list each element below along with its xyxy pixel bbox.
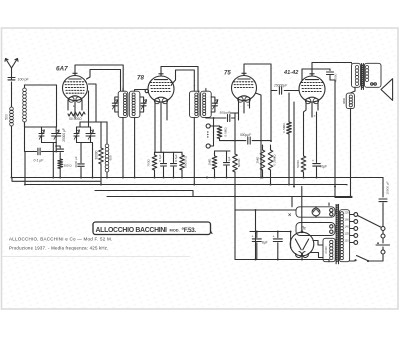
resistor R 300	[58, 159, 63, 169]
capacitor C 8uF a	[256, 232, 258, 238]
resistor R 30000	[100, 146, 102, 148]
trimmer capacitor IFT1a	[114, 99, 116, 110]
svg-text:+: +	[312, 159, 314, 163]
wire power mid vertical	[255, 210, 257, 260]
wire output primary bottom	[351, 87, 356, 93]
svg-text:220: 220	[345, 211, 350, 215]
pin 75 p3	[249, 99, 251, 108]
IF transformer 2 secondary box	[201, 91, 212, 117]
svg-text:0·1µF: 0·1µF	[158, 154, 162, 162]
variable capacitor CV2	[90, 127, 92, 143]
wire antenna drop	[11, 82, 13, 107]
svg-text:10000 µF: 10000 µF	[386, 181, 390, 194]
variable capacitor CV1	[55, 127, 57, 143]
capacitor C 500pF coupling	[220, 140, 246, 142]
resistor R 0.5M phono	[219, 125, 221, 128]
svg-text:25000 µF: 25000 µF	[62, 128, 66, 142]
wire gang1 bus drop	[52, 143, 54, 178]
wire L1 to ground bus	[11, 126, 13, 178]
speaker LS cone	[381, 79, 393, 101]
capacitor C 0.1uF under 78	[163, 152, 165, 162]
coil output primary	[355, 66, 358, 69]
svg-text:2MΩ: 2MΩ	[256, 156, 260, 163]
capacitor C 500pF ift	[206, 117, 226, 119]
wire T1	[210, 125, 219, 127]
svg-text:50 000Ω: 50 000Ω	[69, 117, 82, 121]
coil field	[349, 95, 352, 98]
wire electrolytic rail	[250, 231, 291, 233]
pin 41-42 p3	[317, 101, 319, 110]
coil L1 antenna primary	[10, 107, 14, 111]
coil IFT1 primary	[123, 93, 126, 96]
grid pin circle 78	[145, 89, 148, 92]
svg-text:50000: 50000	[237, 158, 241, 167]
wire 6A7 anode	[87, 70, 121, 92]
resistor R 2M	[262, 145, 264, 150]
wire 78 top cap	[161, 67, 199, 92]
svg-text:700Ω: 700Ω	[147, 159, 151, 167]
wire transformer bottom link	[350, 260, 355, 262]
resistor R 1M	[214, 151, 216, 156]
capacitor C 10000pF mains	[379, 199, 387, 202]
wire 75 plate right	[256, 93, 262, 178]
primary winding	[340, 212, 343, 215]
IF transformer 1 secondary box	[129, 91, 140, 117]
terminal dots	[207, 131, 208, 132]
wire 6A7 osc feed	[89, 84, 97, 122]
output transformer primary box	[352, 63, 361, 87]
wire L2 top to 6A7 grid	[25, 85, 57, 88]
pin 78 p2	[160, 102, 162, 152]
pin 75 p2	[230, 100, 244, 113]
svg-text:ALLOCCHIO BACCHINI: ALLOCCHIO BACCHINI	[96, 227, 168, 234]
wire IFT1 primary drop	[122, 117, 124, 177]
pin 41-42 p1	[304, 101, 307, 112]
capacitor C 25000pF coupling	[271, 90, 277, 92]
lower terminal	[381, 250, 385, 254]
resistor R 500 cathode	[301, 156, 306, 172]
dial lamp box	[296, 207, 335, 217]
wire rectifier right pin 2	[310, 253, 323, 258]
wire screen drop	[293, 102, 295, 187]
wire IFT1b ties	[140, 97, 144, 112]
pilot lamp	[312, 208, 320, 216]
capacitor C 0.1uF	[38, 148, 40, 155]
svg-text:25000µF: 25000µF	[273, 84, 288, 88]
wire IFT2 primary drop	[193, 117, 195, 184]
wire AVC line	[25, 151, 37, 153]
svg-text:160: 160	[345, 218, 350, 222]
wire tone drop	[330, 80, 352, 198]
svg-text:2×300: 2×300	[324, 246, 328, 254]
wire 6A7 grid drop	[56, 85, 58, 127]
output transformer secondary box	[364, 63, 381, 87]
svg-text:41-42: 41-42	[283, 70, 299, 76]
wire transformer top	[328, 203, 330, 205]
svg-text:0·5µF: 0·5µF	[174, 154, 178, 162]
bus 4	[107, 196, 352, 198]
wire IFT1 secondary drop	[134, 117, 136, 177]
wire switch drop	[369, 254, 383, 261]
resistor R 0.25M	[270, 145, 272, 150]
tube U2 78	[148, 76, 174, 102]
trimmer capacitor IFT1b	[143, 99, 145, 110]
trimmer capacitor IFT2	[214, 99, 216, 110]
coil IFT2 secondary	[203, 93, 206, 96]
title box	[93, 222, 211, 235]
wire gang1 grid extension	[55, 143, 57, 152]
capacitor C antenna 100pF	[8, 78, 15, 80]
wire IFT1a ties	[115, 97, 118, 112]
tap 220	[350, 214, 354, 216]
svg-text:×: ×	[247, 104, 249, 108]
svg-text:500Ω: 500Ω	[296, 160, 300, 168]
capacitor C 0.5uF under 78	[173, 152, 175, 162]
voice coil terminals	[371, 83, 373, 85]
wire bottom rail	[235, 260, 329, 262]
core output transformer	[361, 64, 363, 90]
coil IFT1 secondary	[132, 93, 135, 96]
pin 6A7 k1	[67, 100, 69, 110]
lamp box terminals	[330, 209, 333, 212]
capacitor C padder 25000pF	[56, 146, 60, 148]
svg-text:50000 Ω: 50000 Ω	[184, 155, 188, 167]
heater box terminals	[330, 225, 333, 228]
wire C4000 drop	[80, 168, 82, 178]
tap 140	[350, 228, 354, 230]
pin 6A7 k2	[74, 101, 76, 119]
capacitor C tone	[329, 69, 331, 71]
wire gang2 bottom	[77, 143, 93, 178]
bus 3	[95, 191, 193, 197]
svg-text:125: 125	[345, 232, 350, 236]
svg-text:MOD.: MOD.	[170, 228, 180, 233]
wire mid vertical	[234, 113, 236, 197]
wire T2	[210, 118, 213, 146]
svg-text:600: 600	[109, 155, 113, 160]
svg-text:βc: βc	[301, 226, 307, 231]
svg-text:140: 140	[345, 225, 350, 229]
field coil box	[346, 93, 354, 109]
wire 78 cathode rail	[155, 151, 183, 153]
IF transformer 2 primary box	[190, 91, 200, 117]
wire 6A7 top cap	[75, 65, 123, 91]
svg-text:6A7: 6A7	[56, 66, 68, 73]
wire 41-42 screen	[302, 69, 330, 80]
plates C 4000pF	[78, 164, 84, 166]
wire gang1 top	[42, 126, 57, 128]
junction dots	[11, 177, 13, 179]
caption rule	[2, 256, 190, 258]
pin 41-42 p2	[311, 102, 313, 117]
capacitor C 8uF b	[277, 232, 279, 238]
wire rectifier bottom	[301, 256, 303, 260]
svg-text:°F.53.: °F.53.	[182, 226, 197, 234]
svg-text:500µµF: 500µµF	[240, 133, 252, 137]
svg-text:+: +	[252, 235, 254, 239]
wire IFT2 tops	[194, 86, 206, 92]
wire IFT2 ties	[211, 97, 215, 112]
svg-text:30000: 30000	[95, 150, 99, 159]
pin 78 p3	[166, 101, 168, 120]
switch contact	[376, 244, 390, 246]
svg-text:78: 78	[137, 75, 144, 82]
coil IFT2 primary	[195, 93, 198, 96]
wire 41-42 top cap	[312, 63, 352, 77]
IF transformer 1 primary box	[118, 91, 128, 117]
resistor R 700 under 78	[152, 155, 157, 170]
core power transformer	[336, 204, 338, 263]
HT winding	[330, 240, 333, 243]
wire resistor drop	[59, 169, 61, 178]
heater box	[296, 223, 335, 236]
svg-text:×: ×	[314, 114, 316, 118]
selector arm	[358, 216, 381, 228]
svg-text:300 Ω: 300 Ω	[64, 164, 73, 168]
svg-text:+: +	[273, 235, 275, 239]
wire 78 screen	[172, 70, 195, 86]
svg-text:0·5MΩ: 0·5MΩ	[223, 127, 227, 137]
wire 41-42 cathode	[303, 112, 305, 156]
wire L2 tap drop	[24, 122, 26, 152]
wire mains cap drop	[382, 203, 384, 227]
wire rectifier B+ drop	[301, 187, 303, 232]
terminal T1	[206, 124, 210, 128]
wire 75 top cap	[244, 64, 271, 141]
wire left ground drop	[24, 152, 26, 185]
wire rectifier left pin	[290, 232, 293, 249]
svg-text:100 pF: 100 pF	[18, 78, 30, 82]
capacitor C 4000pF	[80, 143, 82, 163]
svg-text:0800: 0800	[342, 98, 346, 104]
svg-text:Produzione 1937. - Media fre: Produzione 1937. - Media frequenza: 425 …	[9, 246, 109, 251]
tube U3 75	[232, 76, 257, 101]
tube U4 41-42	[299, 76, 325, 102]
power transformer primary box	[339, 210, 349, 262]
wire bus right drop	[382, 178, 384, 198]
svg-text:40µF: 40µF	[320, 165, 328, 169]
wire gang1 bottom	[42, 142, 57, 144]
wire IFT2 secondary drop	[205, 116, 207, 119]
wire R30000 top	[100, 122, 102, 146]
coil output secondary	[365, 66, 368, 69]
svg-text:0·25MΩ: 0·25MΩ	[273, 154, 277, 166]
wire L2 bottom	[25, 122, 43, 127]
fuse terminal	[381, 234, 385, 238]
antenna	[5, 59, 18, 81]
svg-text:500: 500	[5, 114, 9, 120]
svg-text:ALLOCCHIO, BACCHINI e Co — Mod: ALLOCCHIO, BACCHINI e Co — Mod F. 52 M.	[9, 237, 113, 242]
wire lamp feed	[235, 197, 296, 211]
svg-text:0·1 µF: 0·1 µF	[34, 159, 45, 163]
pin 75 p1	[238, 99, 240, 120]
tube U1 6A7	[63, 76, 88, 101]
wire gang2 top	[77, 122, 91, 127]
svg-text:0·5MΩ: 0·5MΩ	[282, 123, 286, 133]
svg-text:4000 µF: 4000 µF	[74, 156, 78, 168]
svg-text:1MΩ: 1MΩ	[208, 158, 212, 165]
wire power left vertical	[234, 197, 236, 260]
wire IFT1 tops	[123, 88, 145, 91]
pin 6A7 k3	[81, 100, 83, 110]
wire rectifier right pin 1	[313, 241, 323, 246]
resistor R 0.5M grid	[288, 93, 290, 122]
power transformer HT box	[323, 238, 335, 261]
wire cap to junction	[42, 151, 57, 153]
tap 125	[350, 235, 354, 237]
bus ground	[12, 177, 383, 179]
wire osc top link	[80, 121, 107, 123]
capacitor C 8uF cathode	[316, 112, 318, 163]
pin 78 p1	[154, 101, 156, 152]
terminal T2	[206, 144, 210, 148]
resistor R 50000 under 6A7	[68, 112, 85, 116]
svg-text:500µµF: 500µµF	[220, 111, 232, 115]
wire field drop	[350, 109, 352, 197]
resistor R 50000 mid	[233, 154, 238, 172]
svg-text:8µF: 8µF	[262, 241, 268, 245]
svg-text:1µF: 1µF	[227, 156, 231, 161]
mains switch	[367, 260, 369, 262]
resistor R 50000 under 78	[181, 152, 183, 155]
tube U5 rectifier	[301, 231, 304, 234]
coil L3 oscillator	[105, 144, 109, 148]
svg-text:75: 75	[224, 71, 231, 77]
coil L2 antenna secondary	[23, 88, 27, 92]
tap 110	[350, 242, 354, 244]
svg-text:110: 110	[345, 239, 350, 243]
trimmer capacitor CV2a	[76, 127, 78, 143]
bus 2	[25, 184, 347, 187]
tap 160	[350, 221, 354, 223]
capacitor C 1uF under 75	[226, 151, 228, 162]
trimmer capacitor CV1a	[41, 127, 43, 143]
